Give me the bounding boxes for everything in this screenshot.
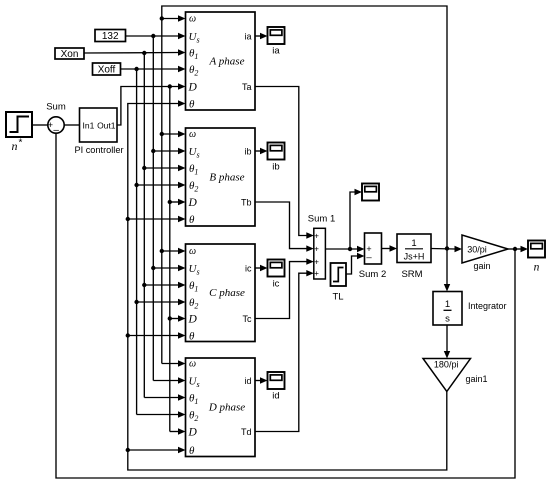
svg-text:B phase: B phase	[209, 171, 244, 183]
svg-text:Integrator: Integrator	[468, 301, 507, 311]
step source TL	[331, 263, 347, 303]
wire SRM output to gain	[431, 248, 455, 251]
wire Sum 2 to SRM	[382, 248, 391, 250]
svg-text:TL: TL	[332, 292, 343, 303]
wire ib to scope	[255, 150, 262, 152]
svg-text:θ: θ	[189, 445, 195, 457]
svg-text:D: D	[188, 81, 198, 93]
scope n	[528, 241, 545, 274]
scope ib	[268, 143, 285, 173]
svg-text:θ: θ	[189, 330, 195, 342]
gain1 180/pi	[423, 359, 488, 392]
constant 132	[95, 30, 126, 43]
wire Tb to Sum 1	[255, 202, 307, 249]
wire omega speed feedback bus	[160, 6, 450, 367]
wire Us bus from constant 132	[126, 33, 186, 384]
wire D duty bus from PI controller	[117, 83, 186, 434]
subsystem B phase	[186, 128, 256, 226]
sum junction Sum	[46, 102, 66, 137]
svg-text:ib: ib	[244, 146, 251, 156]
wire Sum to PI controller	[64, 124, 79, 126]
svg-text:gain1: gain1	[466, 374, 488, 384]
svg-text:132: 132	[102, 31, 119, 42]
svg-text:D phase: D phase	[208, 402, 245, 414]
integrator 1/s	[433, 292, 507, 326]
wire Td to Sum 1	[255, 273, 307, 431]
svg-text:ω: ω	[189, 14, 196, 25]
svg-text:id: id	[272, 391, 279, 402]
svg-text:PI controller: PI controller	[74, 145, 123, 155]
svg-text:Xoff: Xoff	[98, 65, 116, 76]
svg-text:1: 1	[411, 238, 416, 249]
wire theta2 bus from Xoff	[121, 66, 186, 418]
wire id to scope	[255, 380, 262, 382]
svg-text:Out1: Out1	[97, 120, 116, 130]
svg-text:180/pi: 180/pi	[434, 360, 459, 370]
svg-text:ia: ia	[244, 31, 251, 41]
transfer function SRM 1/(Js+H)	[397, 234, 431, 280]
svg-text:Td: Td	[241, 427, 252, 437]
svg-text:In1: In1	[83, 120, 95, 130]
constant Xoff	[93, 63, 121, 76]
svg-text:ω: ω	[189, 359, 196, 370]
subsystem A phase	[186, 12, 256, 110]
subsystem C phase	[186, 244, 256, 342]
svg-text:Ta: Ta	[242, 82, 252, 92]
svg-text:ia: ia	[272, 46, 280, 57]
scope ia	[268, 27, 285, 57]
svg-text:ω: ω	[189, 129, 196, 140]
svg-text:Xon: Xon	[61, 49, 79, 60]
wire theta1 bus from Xon	[84, 49, 186, 400]
svg-text:ω: ω	[189, 246, 196, 257]
wire gain to n scope	[508, 248, 522, 250]
svg-text:+: +	[314, 269, 319, 278]
svg-text:Sum 1: Sum 1	[308, 213, 335, 224]
svg-text:n: n	[12, 139, 18, 153]
svg-text:Tb: Tb	[241, 197, 252, 207]
svg-text:θ: θ	[189, 214, 195, 226]
wire n speed feedback to Sum	[56, 133, 517, 478]
svg-text:SRM: SRM	[401, 269, 422, 280]
svg-text:+: +	[314, 231, 319, 240]
constant Xon	[55, 48, 84, 60]
svg-text:ib: ib	[272, 162, 279, 173]
svg-text:Sum: Sum	[46, 102, 66, 113]
svg-text:D: D	[188, 426, 198, 438]
svg-text:D: D	[188, 313, 198, 325]
wire ic to scope	[255, 267, 262, 269]
sum block Sum 1	[308, 213, 335, 279]
svg-text:ic: ic	[245, 263, 252, 273]
svg-text:C phase: C phase	[209, 287, 245, 299]
step input n*	[6, 112, 32, 153]
gain 30/pi	[462, 235, 508, 271]
wire Tc to Sum 1	[255, 262, 307, 319]
wire Sum 1 output to Sum 2 and scope	[325, 189, 364, 252]
svg-text:A phase: A phase	[209, 55, 245, 67]
svg-text:D: D	[188, 197, 198, 209]
svg-text:30/pi: 30/pi	[467, 244, 487, 254]
svg-text:*: *	[19, 138, 23, 149]
svg-text:Sum 2: Sum 2	[359, 269, 386, 280]
svg-text:ic: ic	[273, 279, 280, 290]
wire TL to Sum 2	[346, 256, 358, 274]
svg-text:–: –	[53, 125, 59, 136]
svg-text:1: 1	[445, 299, 450, 310]
svg-text:+: +	[314, 257, 319, 266]
sum block Sum 2	[359, 233, 386, 280]
svg-text:n: n	[534, 262, 540, 274]
svg-text:Tc: Tc	[243, 314, 253, 324]
subsystem D phase	[186, 358, 256, 457]
svg-text:gain: gain	[473, 261, 490, 271]
wire n* to Sum	[32, 124, 48, 126]
svg-text:id: id	[244, 376, 251, 386]
scope ic	[268, 260, 285, 290]
wire integrator to gain1	[446, 325, 448, 352]
wire theta angle feedback from gain1	[126, 100, 447, 470]
svg-text:s: s	[445, 314, 450, 325]
svg-text:+: +	[314, 244, 319, 253]
wire Ta to Sum 1	[255, 87, 307, 236]
wire ia to scope	[255, 35, 262, 37]
svg-text:Js+H: Js+H	[404, 252, 425, 262]
svg-text:θ: θ	[189, 98, 195, 110]
block PI controller	[74, 108, 123, 155]
wire SRM output to integrator	[446, 249, 448, 285]
svg-text:–: –	[366, 252, 372, 263]
scope id	[268, 372, 285, 402]
scope torque	[362, 184, 379, 201]
